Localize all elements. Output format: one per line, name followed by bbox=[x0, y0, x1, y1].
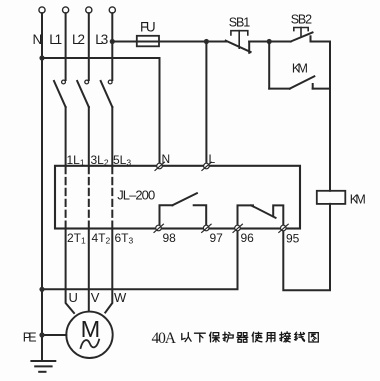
wire SB1 to junction bbox=[249, 41, 269, 43]
svg-text:U: U bbox=[69, 290, 78, 305]
svg-text:40A: 40A bbox=[152, 330, 177, 347]
node junction on N bus bbox=[39, 287, 44, 292]
hanzi 用 bbox=[266, 333, 275, 342]
dashed line phase 2 inside box bbox=[88, 167, 90, 228]
wire down to L terminal bbox=[205, 42, 207, 164]
hanzi 以 bbox=[182, 333, 191, 342]
svg-text:96: 96 bbox=[241, 231, 255, 245]
breaker pole 3 bbox=[101, 80, 113, 107]
terminal N on box (circle-slash) bbox=[155, 162, 164, 170]
motor tilde bbox=[81, 340, 100, 348]
svg-text:V: V bbox=[91, 290, 100, 305]
hanzi 线 bbox=[295, 332, 305, 341]
node junction SB2/KM branch bbox=[267, 39, 272, 44]
wire fuse to SB1 bbox=[159, 41, 226, 43]
hanzi 保 bbox=[210, 332, 220, 342]
svg-text:PE: PE bbox=[23, 331, 37, 345]
coil KM bbox=[317, 191, 346, 204]
hanzi 护 bbox=[223, 332, 234, 342]
wire terminal 96 to N bus bbox=[42, 230, 238, 289]
wire switch pole 3 to box bbox=[111, 107, 113, 166]
wire right vertical to KM coil bbox=[329, 42, 331, 191]
terminal 96 bbox=[233, 224, 242, 232]
svg-text:FU: FU bbox=[140, 20, 156, 35]
dashed line phase 1 inside box bbox=[65, 167, 67, 228]
terminal L on box bbox=[202, 162, 211, 170]
hanzi 使 bbox=[252, 332, 262, 342]
svg-text:L: L bbox=[209, 152, 216, 166]
svg-text:SB2: SB2 bbox=[291, 13, 312, 27]
terminal 97 bbox=[202, 224, 211, 232]
svg-text:L3: L3 bbox=[95, 32, 108, 47]
hanzi 接 bbox=[280, 332, 291, 342]
svg-text:SB1: SB1 bbox=[229, 16, 250, 30]
dashed line phase 3 inside box bbox=[111, 167, 113, 228]
terminal 95 bbox=[279, 224, 288, 232]
wire L3 to fuse bbox=[112, 41, 137, 43]
wire PE to motor bbox=[42, 334, 66, 336]
breaker pole 2 bbox=[77, 80, 89, 107]
svg-text:KM: KM bbox=[350, 193, 366, 207]
wire L1 bus vertical (to switch contact) bbox=[65, 13, 67, 80]
wire L3 bus vertical (to switch contact) bbox=[111, 13, 113, 80]
svg-text:97: 97 bbox=[210, 231, 224, 245]
pushbutton SB2 (NO) bbox=[269, 28, 330, 42]
motor M circle bbox=[66, 312, 112, 358]
supply terminal N (top circle) bbox=[39, 7, 45, 13]
supply terminal L1 (top circle) bbox=[63, 7, 69, 13]
protector box JL-200 bbox=[55, 166, 300, 229]
wire L2 bus vertical (to switch contact) bbox=[88, 13, 90, 80]
svg-text:L2: L2 bbox=[72, 32, 85, 47]
node junction PE bbox=[39, 332, 44, 337]
pushbutton SB1 (NC) bbox=[226, 31, 251, 53]
terminal 98 bbox=[154, 224, 163, 232]
contact 96-95 (relay NC) inside box bbox=[238, 205, 284, 228]
wire switch pole 2 to box bbox=[88, 107, 90, 166]
wire phase 3 box to motor bbox=[105, 229, 112, 313]
contact 98-97 (relay NO) inside box bbox=[160, 193, 207, 228]
contact KM (auxiliary, NO) parallel with SB2 bbox=[269, 42, 330, 89]
node junction to L terminal bbox=[204, 39, 209, 44]
supply terminal L3 (top circle) bbox=[109, 7, 115, 13]
wire switch pole 1 to box bbox=[65, 107, 67, 166]
breaker pole 1 bbox=[54, 80, 66, 107]
wire N branch horizontal to box bbox=[42, 58, 160, 163]
ground symbol bbox=[31, 361, 55, 372]
hanzi 下 bbox=[195, 333, 206, 342]
wire KM coil to terminal 95 bbox=[283, 204, 330, 290]
wire phase 2 box to motor bbox=[88, 229, 90, 312]
svg-text:98: 98 bbox=[163, 231, 177, 245]
fuse FU bbox=[137, 36, 159, 47]
svg-text:N: N bbox=[33, 32, 43, 47]
svg-text:JL–200: JL–200 bbox=[117, 187, 155, 202]
wire phase 1 box to motor bbox=[66, 229, 74, 314]
svg-text:95: 95 bbox=[286, 232, 300, 246]
hanzi 图 bbox=[309, 333, 318, 342]
supply terminal L2 (top circle) bbox=[86, 7, 92, 13]
node junction N branch bbox=[39, 55, 44, 60]
svg-text:N: N bbox=[162, 152, 171, 166]
svg-text:W: W bbox=[114, 290, 127, 305]
caption hanzi (drawn) bbox=[182, 332, 318, 342]
svg-text:KM: KM bbox=[292, 62, 308, 76]
svg-text:M: M bbox=[81, 316, 101, 342]
wire N bus vertical bbox=[41, 13, 43, 361]
svg-text:L1: L1 bbox=[49, 32, 62, 47]
hanzi 器 bbox=[237, 333, 248, 343]
node junction on L3 bbox=[110, 39, 115, 44]
